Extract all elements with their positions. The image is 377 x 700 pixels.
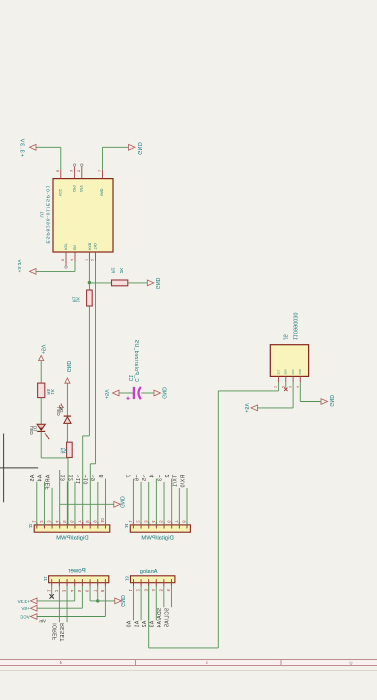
svg-text:5: 5	[76, 170, 80, 172]
svg-text:3: 3	[69, 170, 73, 172]
svg-text:2: 2	[165, 475, 171, 478]
svg-text:VCC: VCC	[19, 615, 29, 620]
svg-text:RX/0: RX/0	[180, 475, 186, 488]
svg-text:~11: ~11	[76, 475, 82, 485]
svg-text:3: 3	[206, 661, 208, 665]
svg-text:J1: J1	[43, 576, 48, 581]
svg-text:7: 7	[127, 475, 133, 478]
svg-text:EN: EN	[72, 245, 76, 250]
svg-text:+3.3V: +3.3V	[19, 138, 25, 157]
svg-text:+3.3V: +3.3V	[17, 599, 30, 604]
svg-text:C1: C1	[127, 375, 133, 382]
svg-text:4: 4	[150, 475, 156, 478]
svg-text:+3.3V: +3.3V	[16, 259, 22, 273]
svg-text:+5V: +5V	[20, 606, 29, 611]
svg-text:TXD: TXD	[93, 243, 97, 250]
svg-text:+5V: +5V	[243, 402, 249, 412]
svg-text:GND: GND	[136, 142, 142, 155]
svg-text:RXD: RXD	[87, 242, 91, 250]
svg-text:A0: A0	[127, 621, 133, 628]
svg-text:SCL/A5: SCL/A5	[165, 608, 171, 628]
svg-text:GND: GND	[119, 496, 125, 508]
svg-text:U1: U1	[40, 211, 45, 217]
svg-text:VCC: VCC	[58, 188, 62, 196]
svg-text:1K: 1K	[50, 389, 55, 395]
svg-text:ESP8266-01/ESP-01: ESP8266-01/ESP-01	[45, 185, 51, 244]
svg-text:4: 4	[59, 660, 62, 665]
svg-text:SCL: SCL	[277, 369, 281, 375]
svg-text:J2: J2	[28, 523, 33, 528]
svg-text:Analog: Analog	[140, 569, 158, 575]
svg-text:TX/1: TX/1	[173, 475, 179, 488]
svg-text:GND: GND	[298, 369, 302, 375]
svg-text:1K: 1K	[63, 448, 68, 454]
svg-text:GND: GND	[161, 387, 167, 399]
svg-text:Power: Power	[68, 567, 85, 574]
svg-text:J3: J3	[124, 576, 129, 581]
svg-text:A1: A1	[134, 621, 140, 628]
svg-text:~3: ~3	[157, 475, 163, 482]
svg-text:J4: J4	[124, 523, 129, 528]
svg-text:4: 4	[295, 386, 299, 388]
svg-text:1: 1	[274, 386, 278, 388]
svg-text:RST: RST	[63, 243, 67, 250]
svg-text:GP2: GP2	[79, 185, 83, 192]
svg-text:1K: 1K	[76, 297, 81, 303]
svg-text:3: 3	[288, 386, 292, 388]
svg-text:Vin: Vin	[39, 619, 46, 624]
svg-text:VCC: VCC	[291, 369, 295, 375]
svg-text:13: 13	[61, 475, 67, 482]
svg-text:LED: LED	[56, 407, 61, 417]
svg-text:J5: J5	[282, 334, 288, 340]
svg-text:U: U	[349, 660, 352, 665]
svg-text:A5: A5	[30, 475, 36, 482]
svg-text:A4: A4	[38, 475, 44, 482]
svg-text:SDA: SDA	[284, 369, 288, 375]
svg-text:8: 8	[99, 475, 105, 478]
svg-text:SDA/A4: SDA/A4	[157, 608, 163, 628]
svg-text:10: 10	[100, 517, 105, 522]
svg-text:RESET: RESET	[60, 623, 66, 642]
svg-text:2: 2	[90, 259, 94, 261]
svg-text:GND: GND	[328, 395, 334, 407]
svg-text:C_Polarized_US: C_Polarized_US	[133, 339, 139, 382]
svg-text:6: 6	[61, 259, 65, 261]
svg-text:+5V: +5V	[40, 344, 46, 354]
svg-text:+5V: +5V	[103, 389, 109, 399]
svg-text:R2: R2	[111, 267, 116, 273]
svg-text:~6: ~6	[134, 475, 140, 482]
svg-text:LED: LED	[29, 426, 34, 436]
svg-text:Digital/PWM: Digital/PWM	[141, 535, 173, 541]
svg-text:A3: A3	[149, 621, 155, 628]
svg-text:Digital/PWM: Digital/PWM	[56, 535, 88, 541]
svg-text:GP0: GP0	[72, 185, 76, 192]
svg-text:4: 4	[70, 259, 74, 261]
svg-text:1: 1	[97, 170, 101, 172]
svg-text:7: 7	[84, 259, 88, 261]
svg-text:8: 8	[55, 170, 59, 172]
svg-text:GND: GND	[154, 277, 160, 289]
svg-text:~5: ~5	[142, 475, 148, 482]
svg-text:GND: GND	[119, 595, 125, 607]
svg-text:110990030: 110990030	[291, 312, 297, 340]
svg-text:GND: GND	[100, 188, 104, 196]
svg-text:12: 12	[68, 475, 74, 482]
svg-text:~10: ~10	[84, 475, 90, 485]
svg-text:AREF: AREF	[45, 475, 51, 490]
svg-text:A2: A2	[142, 621, 148, 628]
svg-text:IOREF: IOREF	[53, 623, 59, 640]
svg-text:2K: 2K	[119, 268, 124, 274]
svg-text:GND: GND	[65, 361, 71, 373]
svg-text:~9: ~9	[91, 475, 97, 482]
